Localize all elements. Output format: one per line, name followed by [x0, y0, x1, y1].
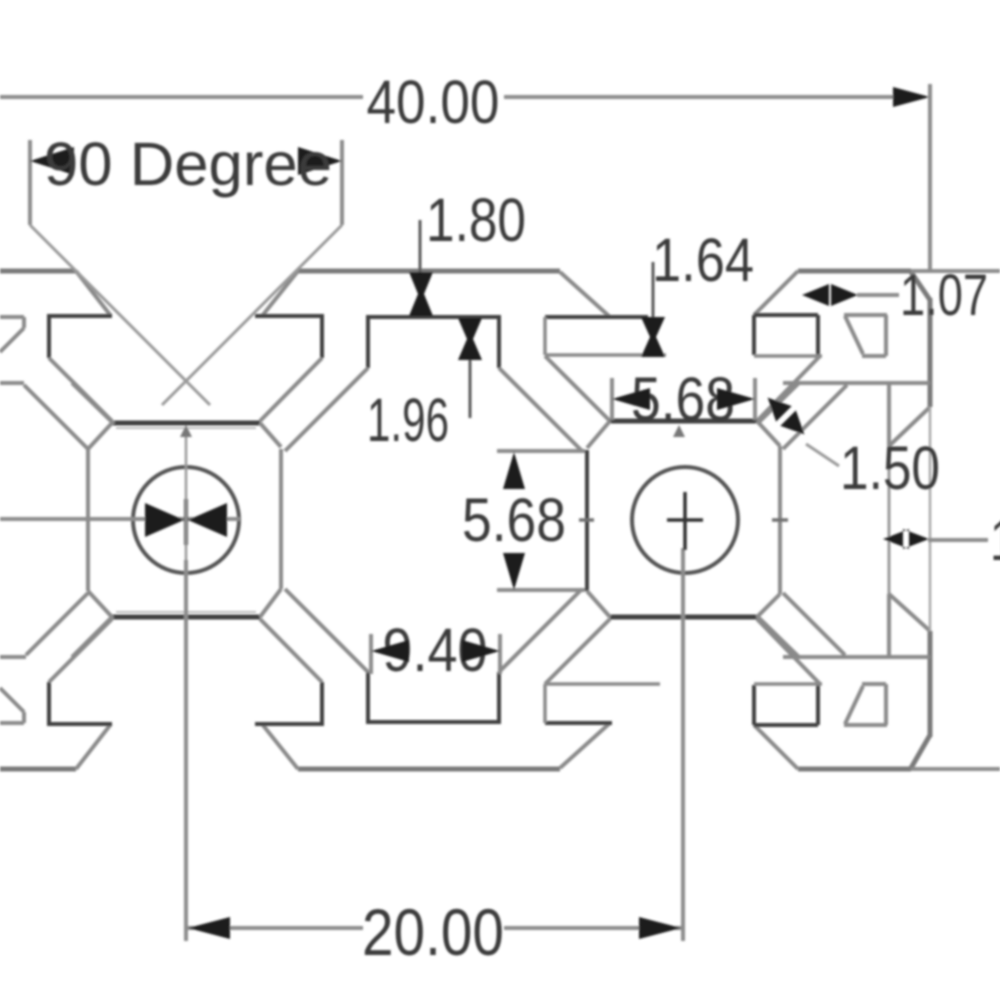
right chamber right wall [778, 446, 782, 594]
right bore circle [632, 467, 738, 573]
left chamber top wall [112, 421, 260, 426]
dim 1.96 hourglass arrows [458, 318, 482, 360]
dim 5.68 top bars [612, 378, 755, 420]
top-right slot cavity chamfers [545, 356, 820, 421]
dim 1.96 leader line [469, 360, 472, 418]
bottom-right slot V chamfers [560, 723, 798, 769]
right chamber left wall [585, 450, 589, 591]
dim 5.68 middle arrows [503, 452, 525, 590]
dim 40.00 extension line [928, 84, 932, 270]
dim 1.07 leader [857, 293, 899, 297]
center tick on right chamber left wall [579, 518, 594, 522]
right chamber corner chamfers [587, 421, 780, 617]
dim 90 Degree bars [30, 140, 342, 225]
right bore center cross [667, 492, 703, 550]
top-right slot right lip rectangle [754, 315, 818, 356]
right end slot cavity walls [783, 383, 930, 657]
top-right slot left lip rectangle [545, 315, 648, 319]
bottom-left slot cavity chamfers [49, 619, 322, 682]
dim 1.50 leader [806, 444, 839, 466]
top-left slot lips and cavity walls [47, 314, 322, 358]
svg-text:20.00: 20.00 [362, 895, 504, 969]
left end partial lip line bottom [0, 688, 24, 723]
svg-text:1.80: 1.80 [426, 186, 526, 254]
end face extension between chamfers [929, 407, 932, 631]
top-left slot V chamfers [76, 271, 298, 316]
dim 1.50 bowtie arrows [760, 390, 812, 442]
left end cavity walls [0, 383, 26, 657]
bottom-right slot right lip rectangle [754, 684, 818, 725]
profile bottom surface [0, 767, 911, 772]
top middle cavity [366, 317, 501, 368]
left bore centerline up arrow [180, 425, 192, 437]
left bore circle [133, 467, 239, 573]
right end slot throat verticals [887, 383, 891, 657]
bottom-left slot lips and cavity walls [47, 682, 322, 726]
svg-text:1.50: 1.50 [840, 434, 940, 502]
center tick on right chamber right wall [772, 518, 788, 522]
bottom-right slot left lip rectangle [545, 721, 612, 725]
dim 40.00 arrowhead [893, 87, 930, 107]
dim 20.00 extension lines [186, 548, 683, 941]
left chamber side walls [88, 449, 281, 591]
left end corner webs [24, 383, 114, 657]
right end slot V chamfers [889, 407, 930, 631]
dim 9.40 arrows [371, 640, 500, 662]
dim 40.00 line [0, 95, 896, 99]
svg-text:1.64: 1.64 [652, 226, 754, 294]
svg-text:1.07: 1.07 [900, 263, 988, 328]
left chamber bottom wall [112, 615, 260, 620]
svg-text:5.68: 5.68 [462, 486, 566, 554]
right end corner webs [757, 383, 847, 657]
partial dim leader [928, 538, 988, 542]
extension line right of top surface [911, 269, 1000, 273]
dim 5.68 middle bars [497, 451, 585, 590]
dim 9.40 bars [371, 634, 500, 674]
dim 1.07 bowtie arrows [802, 284, 858, 306]
bottom-right corner triangle void [844, 684, 887, 725]
top-right slot left V chamfer [560, 271, 798, 317]
top-right corner triangle void [844, 315, 887, 356]
right chamber top wall [610, 419, 757, 424]
hole diameter dim line [0, 517, 240, 521]
left bore centerline [185, 437, 188, 560]
left chamber corner chamfers [88, 423, 281, 617]
dim 1.80 leader line [419, 220, 422, 272]
svg-text:1.96: 1.96 [367, 386, 449, 454]
hole diameter bowtie arrows at left bore [145, 503, 227, 537]
profile right end face [911, 272, 930, 768]
profile top surface [0, 269, 911, 274]
right chamber bottom wall [610, 615, 757, 620]
svg-text:90 Degree: 90 Degree [44, 130, 332, 198]
dim 1.80 hourglass arrows [409, 272, 433, 316]
svg-text:1.64: 1.64 [990, 508, 1000, 573]
bottom middle webs [285, 589, 582, 672]
90 degree V construction lines [30, 225, 342, 405]
top middle webs [285, 368, 582, 451]
partial dim at right edge bowtie [883, 529, 929, 549]
bottom middle cavity [366, 672, 501, 722]
dim 20.00 line [186, 926, 681, 930]
dim 20.00 arrows [188, 917, 681, 939]
bottom-left slot V chamfers [76, 724, 298, 769]
dim 5.68 top arrows [612, 388, 755, 410]
bottom-right slot cavity chamfers [545, 619, 820, 684]
left end partial lip line top [0, 317, 24, 352]
dim 90 Degree arrows [30, 147, 342, 175]
top-left slot cavity chamfers [49, 358, 322, 421]
right chamber top center tick arrow [673, 425, 685, 437]
svg-text:40.00: 40.00 [367, 68, 500, 136]
extension line right of bottom surface [911, 767, 1000, 771]
left bore center tick [184, 499, 188, 545]
dim 1.64 leader line [652, 262, 655, 317]
dim 1.64 hourglass arrows [641, 317, 665, 357]
